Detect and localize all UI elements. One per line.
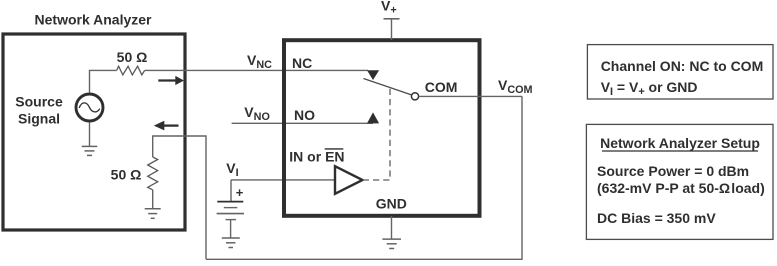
svg-text:GND: GND bbox=[376, 196, 407, 212]
source V1 sine generator circle bbox=[76, 94, 103, 121]
ground (source) bbox=[82, 146, 98, 155]
EN overline bbox=[325, 148, 344, 150]
svg-text:VNO: VNO bbox=[244, 104, 270, 123]
svg-text:VI = V+ or GND: VI = V+ or GND bbox=[601, 79, 698, 98]
wire COM return into analyzer bbox=[153, 136, 206, 259]
wire NO net bbox=[232, 122, 373, 124]
svg-text:Signal: Signal bbox=[18, 110, 60, 126]
svg-text:Source: Source bbox=[15, 93, 63, 109]
switch U1 box (DUT) bbox=[284, 40, 480, 216]
wire battery top lead bbox=[230, 180, 232, 202]
svg-text:IN or EN: IN or EN bbox=[289, 148, 344, 164]
svg-text:VCOM: VCOM bbox=[498, 77, 533, 96]
svg-text:Source Power = 0 dBm: Source Power = 0 dBm bbox=[597, 163, 749, 179]
battery V2 plates bbox=[217, 202, 244, 220]
svg-text:VI: VI bbox=[226, 160, 238, 179]
svg-text:Network Analyzer Setup: Network Analyzer Setup bbox=[600, 135, 760, 151]
svg-text:VNC: VNC bbox=[247, 52, 272, 71]
switch pole arm bbox=[364, 79, 412, 95]
svg-text:COM: COM bbox=[425, 79, 458, 95]
arrow left (signal out of COM return) bbox=[164, 124, 179, 126]
arrow right (signal into NC) bbox=[158, 79, 176, 81]
svg-text:Channel ON: NC to COM: Channel ON: NC to COM bbox=[601, 58, 764, 74]
wire NC net from R1 to NC contact bbox=[145, 69, 368, 71]
wire GND pin lead bbox=[391, 216, 393, 239]
Network Analyzer box bbox=[3, 34, 185, 230]
wire VCOM return loop to analyzer bbox=[206, 96, 522, 259]
ground (GND pin) bbox=[382, 239, 401, 248]
enable driver A1 (buffer triangle) bbox=[335, 166, 363, 194]
wire VI net (battery to driver input) bbox=[231, 179, 335, 181]
wire source top bbox=[90, 70, 117, 92]
wire R2 bottom to ground bbox=[152, 190, 154, 209]
wire COM to VCOM bbox=[419, 95, 522, 97]
svg-text:50 Ω: 50 Ω bbox=[117, 49, 148, 65]
dashed control line bbox=[363, 88, 390, 180]
NC fixed contact (triangle down) bbox=[367, 70, 379, 80]
wire V+ pin bbox=[391, 19, 393, 40]
wire source bottom to ground bbox=[89, 122, 91, 146]
svg-text:NC: NC bbox=[292, 55, 312, 71]
svg-text:DC Bias = 350 mV: DC Bias = 350 mV bbox=[597, 210, 716, 226]
resistor R2 50 ohm (vertical) bbox=[148, 157, 158, 190]
NO fixed contact (triangle up) bbox=[367, 112, 379, 123]
svg-text:+: + bbox=[236, 185, 244, 200]
svg-text:Network Analyzer: Network Analyzer bbox=[35, 11, 153, 27]
heading underline bbox=[602, 150, 758, 152]
V+ pin bar bbox=[384, 18, 400, 20]
resistor R1 50 ohm (horizontal) bbox=[117, 66, 145, 75]
ground (battery) bbox=[222, 238, 240, 248]
svg-text:V+: V+ bbox=[381, 0, 397, 17]
ground (R2) bbox=[145, 209, 161, 219]
svg-text:(632-mV P-P at 50-Ω load): (632-mV P-P at 50-Ω load) bbox=[597, 180, 765, 196]
wire battery bottom lead bbox=[230, 220, 232, 238]
svg-text:NO: NO bbox=[294, 107, 315, 123]
annotation box 2 bbox=[586, 124, 773, 239]
switch pole circle (COM) bbox=[411, 93, 418, 100]
svg-text:50 Ω: 50 Ω bbox=[111, 167, 142, 183]
annotation box 1 bbox=[587, 45, 773, 99]
